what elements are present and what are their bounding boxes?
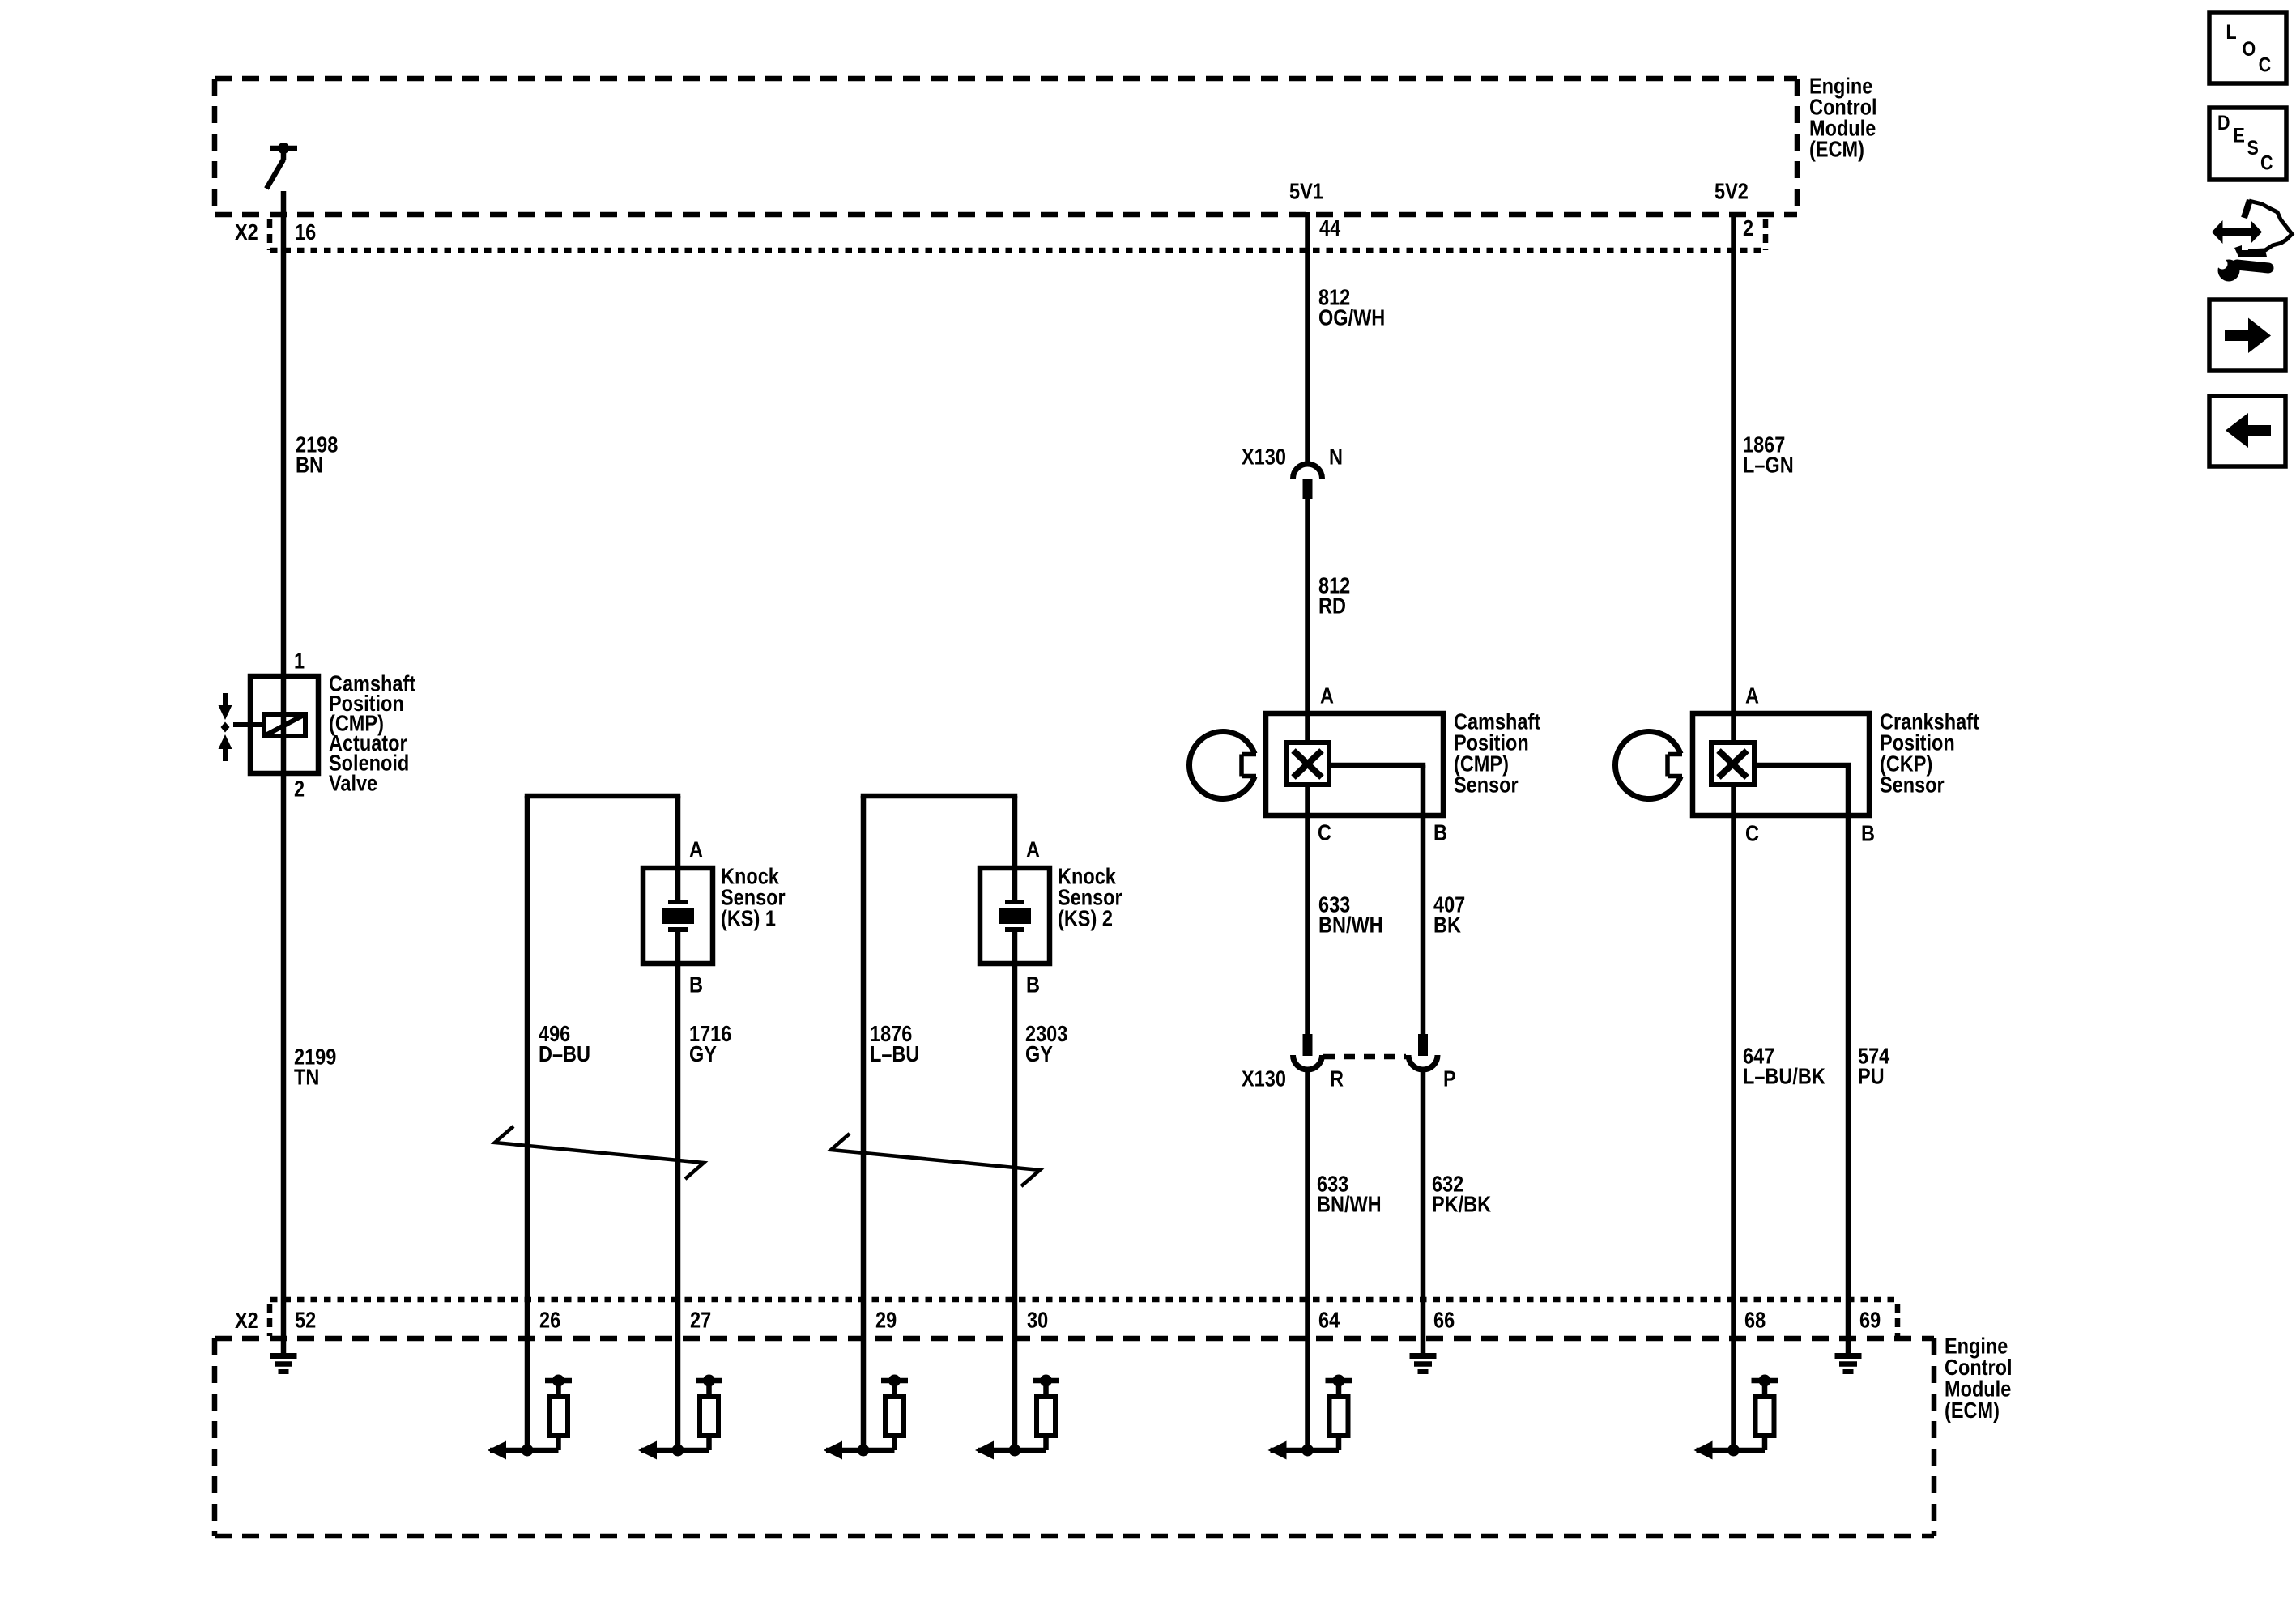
- CMP B link wire: [1329, 763, 1425, 768]
- connector X130 P pin: [1418, 1034, 1428, 1056]
- icon right-arrow box: [2209, 300, 2285, 371]
- svg-text:1867L–GN: 1867L–GN: [1743, 432, 1794, 477]
- junction dot pin 30: [1009, 1445, 1021, 1457]
- icon left-arrow box: [2209, 396, 2285, 466]
- svg-text:P: P: [1443, 1066, 1456, 1091]
- valve actuator arrows: [219, 693, 232, 761]
- KS1 element: [668, 902, 688, 930]
- svg-text:2198BN: 2198BN: [296, 432, 338, 477]
- CMP sensor inner box: [1286, 743, 1329, 785]
- svg-text:EngineControlModule(ECM): EngineControlModule(ECM): [1809, 74, 1877, 161]
- svg-text:C: C: [1745, 821, 1759, 845]
- CKP sensor inner box: [1711, 743, 1754, 785]
- svg-text:496D–BU: 496D–BU: [539, 1022, 590, 1066]
- svg-text:5V2: 5V2: [1715, 180, 1749, 204]
- top row right separator: [1763, 219, 1769, 250]
- ECM top dashed box: [215, 79, 1797, 215]
- svg-text:812OG/WH: 812OG/WH: [1318, 285, 1385, 330]
- KS2 top link wire: [861, 794, 1018, 799]
- svg-text:A: A: [689, 837, 703, 862]
- wire 496 D-BU (x=651): [525, 796, 530, 1450]
- svg-text:52: 52: [295, 1308, 316, 1332]
- top row left separator: [267, 219, 273, 250]
- svg-text:2303GY: 2303GY: [1025, 1022, 1067, 1066]
- top connector row dotted line: [270, 248, 1766, 253]
- svg-text:574PU: 574PU: [1858, 1044, 1890, 1088]
- svg-text:KnockSensor(KS) 1: KnockSensor(KS) 1: [721, 864, 786, 930]
- wire 1876 L-BU (x=1066): [861, 796, 867, 1450]
- solenoid coil: [233, 714, 305, 736]
- svg-text:EngineControlModule(ECM): EngineControlModule(ECM): [1945, 1334, 2013, 1423]
- ground pin 69: [1835, 1356, 1862, 1372]
- KS1 top link wire: [525, 794, 681, 799]
- svg-text:X130: X130: [1242, 445, 1286, 469]
- signal arrow pin 27: [641, 1448, 709, 1453]
- ground pin 66: [1410, 1356, 1437, 1372]
- svg-text:X2: X2: [235, 1308, 258, 1333]
- wire 647 L-BU/BK (x=2140): [1731, 785, 1736, 1450]
- CMP actuator solenoid valve box: [250, 676, 318, 773]
- ground pin 52: [270, 1356, 297, 1372]
- junction dot pin 64: [1301, 1445, 1314, 1457]
- bottom connector row dotted line: [270, 1297, 1898, 1303]
- signal arrow pin 64: [1271, 1448, 1340, 1453]
- CMP reluctor circle: [1190, 732, 1257, 799]
- svg-text:1716GY: 1716GY: [689, 1022, 731, 1066]
- wire 407 BK (x=1757): [1421, 765, 1426, 1034]
- KS2 element: [1005, 902, 1024, 930]
- svg-text:CamshaftPosition(CMP)Sensor: CamshaftPosition(CMP)Sensor: [1454, 709, 1540, 797]
- svg-text:27: 27: [690, 1308, 711, 1332]
- CMP sensor X element: [1293, 751, 1322, 777]
- wire 2303 GY (x=1253): [1012, 796, 1018, 904]
- svg-text:B: B: [1026, 972, 1040, 997]
- svg-text:KnockSensor(KS) 2: KnockSensor(KS) 2: [1058, 864, 1122, 930]
- junction dot pin 26: [522, 1445, 534, 1457]
- wire 5V1 to X130 N (x=1614): [1305, 212, 1310, 463]
- icon DESC box: [2209, 108, 2286, 180]
- resistor (ECM internal) pin 30: [1033, 1381, 1059, 1450]
- svg-text:A: A: [1026, 837, 1040, 862]
- wire 2198 BN / 2199 TN (x=350): [281, 191, 287, 1353]
- X130 R-P dashed link: [1323, 1054, 1406, 1060]
- junction dot pin 27: [672, 1445, 684, 1457]
- svg-text:C: C: [2259, 53, 2272, 76]
- connector X130 R arc: [1293, 1055, 1323, 1070]
- CMP sensor outer box: [1266, 713, 1443, 815]
- svg-text:B: B: [1433, 820, 1447, 845]
- svg-text:R: R: [1330, 1066, 1344, 1091]
- signal arrow pin 30: [978, 1448, 1046, 1453]
- knock sensor KS2 box: [980, 868, 1050, 964]
- icon hand outline: [2248, 201, 2292, 251]
- icon wrench: [2218, 260, 2240, 282]
- wire 633 BN/WH upper (x=1614): [1305, 785, 1310, 1034]
- junction dot pin 29: [858, 1445, 870, 1457]
- switch (ECM driver): [266, 148, 297, 189]
- svg-text:812RD: 812RD: [1318, 573, 1350, 618]
- resistor (ECM internal) pin 26: [545, 1381, 572, 1450]
- svg-text:1: 1: [294, 649, 305, 673]
- svg-text:2199TN: 2199TN: [294, 1045, 336, 1089]
- resistor (ECM internal) pin 27: [696, 1381, 722, 1450]
- svg-text:O: O: [2243, 38, 2256, 61]
- wire 1716 GY (x=837): [675, 796, 681, 904]
- svg-text:633BN/WH: 633BN/WH: [1317, 1172, 1382, 1216]
- svg-text:2: 2: [1743, 216, 1753, 240]
- connector X130 N arc: [1293, 464, 1323, 479]
- svg-text:CamshaftPosition(CMP)ActuatorS: CamshaftPosition(CMP)ActuatorSolenoidVal…: [329, 671, 415, 795]
- CKP B link wire: [1754, 763, 1851, 768]
- wire 574 PU (x=2282): [1846, 765, 1851, 1353]
- wire 632 PK/BK: [1421, 1069, 1426, 1353]
- svg-text:A: A: [1745, 683, 1759, 708]
- junction dot pin 68: [1727, 1445, 1740, 1457]
- svg-text:632PK/BK: 632PK/BK: [1432, 1172, 1491, 1216]
- signal arrow pin 26: [490, 1448, 559, 1453]
- icon change-hand double arrow: [2212, 220, 2262, 244]
- svg-text:N: N: [1329, 445, 1343, 469]
- svg-text:407BK: 407BK: [1433, 892, 1465, 937]
- CKP sensor outer box: [1693, 713, 1869, 815]
- wire 5V2 to CKP A (x=2140): [1731, 212, 1736, 743]
- CKP sensor X element: [1719, 751, 1747, 777]
- svg-text:30: 30: [1027, 1308, 1048, 1332]
- resistor (ECM internal) pin 64: [1326, 1381, 1352, 1450]
- signal arrow pin 68: [1697, 1448, 1766, 1453]
- svg-text:5V1: 5V1: [1289, 180, 1323, 204]
- svg-text:16: 16: [295, 220, 316, 245]
- svg-text:2: 2: [294, 777, 305, 801]
- svg-text:B: B: [689, 972, 703, 997]
- svg-text:D: D: [2217, 112, 2230, 134]
- svg-text:L: L: [2226, 21, 2237, 44]
- bottom row right separator: [1895, 1304, 1901, 1336]
- svg-text:E: E: [2234, 124, 2245, 147]
- signal arrow pin 29: [826, 1448, 895, 1453]
- svg-text:66: 66: [1433, 1308, 1455, 1332]
- resistor (ECM internal) pin 68: [1752, 1381, 1778, 1450]
- svg-text:A: A: [1320, 683, 1334, 708]
- svg-text:64: 64: [1318, 1308, 1340, 1332]
- ECM bottom dashed box: [215, 1338, 1934, 1536]
- svg-text:44: 44: [1319, 216, 1341, 240]
- svg-text:29: 29: [875, 1308, 897, 1332]
- connector X130 R pin: [1303, 1034, 1313, 1056]
- resistor (ECM internal) pin 29: [881, 1381, 908, 1450]
- svg-text:1876L–BU: 1876L–BU: [870, 1022, 919, 1066]
- icon LOC box: [2209, 12, 2286, 83]
- wire 633 BN/WH lower: [1305, 1069, 1310, 1450]
- svg-text:68: 68: [1744, 1308, 1766, 1332]
- svg-text:B: B: [1861, 821, 1875, 845]
- wire 812 RD: [1305, 499, 1310, 743]
- svg-text:26: 26: [539, 1308, 560, 1332]
- svg-text:69: 69: [1859, 1308, 1881, 1332]
- svg-text:C: C: [2260, 151, 2273, 174]
- svg-text:CrankshaftPosition(CKP)Sensor: CrankshaftPosition(CKP)Sensor: [1880, 709, 1979, 797]
- svg-text:C: C: [1318, 820, 1331, 845]
- svg-text:633BN/WH: 633BN/WH: [1318, 892, 1383, 937]
- twisted pair slash KS1: [495, 1126, 704, 1179]
- svg-text:647L–BU/BK: 647L–BU/BK: [1743, 1044, 1825, 1088]
- svg-text:X2: X2: [235, 220, 258, 245]
- twisted pair slash KS2: [831, 1134, 1040, 1186]
- CKP reluctor circle: [1616, 732, 1683, 799]
- connector X130 N pin: [1303, 479, 1313, 499]
- bottom row left separator: [267, 1304, 273, 1336]
- svg-text:S: S: [2247, 137, 2259, 160]
- knock sensor KS1 box: [643, 868, 713, 964]
- svg-text:X130: X130: [1242, 1066, 1286, 1091]
- connector X130 P arc: [1408, 1055, 1438, 1070]
